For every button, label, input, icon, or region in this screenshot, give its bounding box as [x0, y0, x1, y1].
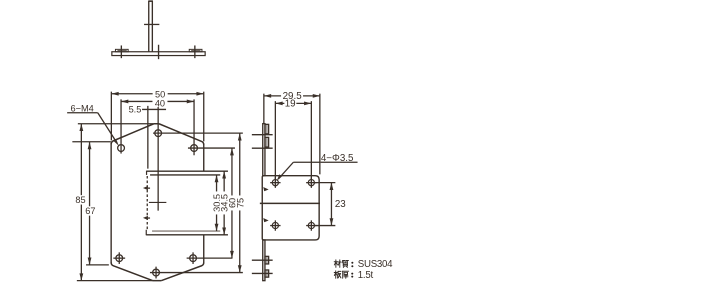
kanji 材 [334, 260, 341, 267]
kanji 板 [334, 271, 341, 278]
top view: right burring collar [189, 49, 202, 51]
front plate: bottom-right slant edge [161, 263, 204, 281]
front plate: left edge [110, 143, 112, 263]
side: plate mid line across web [260, 202, 320, 204]
ext: 40 dim left / top-left hole centerline [120, 99, 122, 153]
svg-text:75: 75 [235, 198, 245, 208]
dim 67 line [89, 142, 91, 265]
ext: top-center hole row (75 dim) [153, 132, 243, 134]
cutout: top-left end cap [146, 171, 148, 175]
leader 4-phi3.5 [293, 161, 320, 163]
hole M4 bottom-left [116, 255, 123, 262]
svg-text:19: 19 [285, 99, 296, 110]
hole M4 top-left [118, 145, 125, 152]
ext: web face line (5.5 dim left) [147, 106, 149, 169]
center mark cross in cutout [149, 201, 166, 203]
hole 3.5 top-left [272, 180, 278, 186]
leader 6-M4 [98, 113, 117, 143]
side: hole center tick 2 [252, 147, 273, 149]
top view: web plate edge-on [148, 1, 150, 52]
side: web plate face-on rectangle [262, 176, 319, 240]
dim 29.5 line [264, 95, 320, 97]
top view: web hole center tick [144, 23, 159, 25]
hole M4 bottom-center [153, 269, 160, 276]
cutout: bottom outer edge + 34.5 extension [146, 234, 228, 236]
ext: 67 dim bottom [86, 264, 109, 266]
side: base plate edge-on strip upper part [263, 124, 265, 176]
front plate: bottom flat + 85 extension [77, 280, 153, 282]
ext: bottom hole row (60 dim) [187, 257, 233, 259]
top view: left burring collar [115, 49, 128, 51]
cutout: top inner edge + 30.5 extension [150, 174, 220, 176]
front plate: top-left slant edge [111, 124, 154, 145]
ext: 40 dim right / top-right hole centerline [193, 99, 195, 155]
hole M4 top-center [155, 130, 162, 137]
ext: 50 dim right [203, 92, 205, 142]
dim 23 line [330, 183, 332, 226]
svg-text:40: 40 [155, 98, 165, 108]
side: weld mark lower [263, 218, 268, 222]
dim 85 text [74, 195, 87, 204]
dim 85 line [80, 124, 82, 281]
hidden web edge: dashed line [146, 176, 148, 230]
top view: base plate edge-on [112, 52, 205, 56]
cutout: top outer edge + 34.5 extension [147, 170, 228, 172]
svg-text:85: 85 [75, 195, 85, 205]
front plate: top-right slant edge [159, 124, 204, 145]
weld mark lower (front) [143, 216, 148, 220]
top view: left hole center line [120, 45, 122, 58]
dim 50 text [153, 91, 168, 99]
dim 67 text [84, 206, 97, 215]
front plate: bottom-left slant edge [111, 262, 153, 280]
ext: 19 left [274, 101, 276, 179]
front plate: right edge lower segment [203, 235, 205, 263]
svg-text:5.5: 5.5 [129, 104, 142, 114]
dim 34.5 line [223, 171, 225, 235]
svg-text:23: 23 [335, 199, 346, 210]
dim 50 line [111, 93, 203, 95]
dim 40 line [121, 100, 194, 102]
ext: 29.5 left [263, 94, 265, 124]
hole 3.5 top-right [308, 180, 314, 186]
side: hole center tick 4 [252, 272, 273, 274]
ext: 23 bottom [315, 225, 336, 227]
kanji 質 [342, 261, 348, 268]
ext: 29.5 right [319, 94, 321, 175]
cutout: bottom-left end cap [145, 230, 147, 236]
top view: right hole center line [194, 45, 196, 58]
ext: 67 dim top [72, 141, 111, 143]
ext: top hole row (60 dim) [188, 147, 235, 149]
hole M4 top-right [191, 145, 198, 152]
hole M4 bottom-right [190, 255, 197, 262]
side: collar tab 2 [265, 137, 269, 147]
front plate: right edge upper segment [203, 144, 205, 171]
dim 5.5 line [142, 108, 166, 110]
ext: 19 right [310, 101, 312, 179]
ext: bottom-center hole row (75 dim) [150, 272, 243, 274]
ext: 23 top [315, 182, 336, 184]
svg-text:1.5t: 1.5t [358, 270, 374, 281]
side: hole center tick 1 [252, 134, 273, 136]
kanji 厚 [342, 271, 348, 278]
side: collar tab 1 [265, 124, 269, 134]
ext: part center line (5.5 dim right) [157, 106, 159, 211]
full-width colons [351, 262, 353, 278]
dim 40 text [152, 99, 167, 107]
dim 60 line [231, 148, 233, 258]
hole 3.5 bottom-left [272, 222, 278, 228]
dim 19 line [275, 102, 311, 104]
weld mark upper (front) [143, 186, 148, 190]
ext: 50 dim left [110, 92, 112, 141]
dim 75 line [239, 133, 241, 272]
top view: center hole center line [158, 45, 160, 59]
side: collar tab 4 [265, 270, 269, 277]
side: hole center tick 3 [252, 259, 273, 261]
note: material kanji 材質 [334, 260, 348, 278]
svg-text:SUS304: SUS304 [358, 259, 393, 270]
side: weld mark upper [263, 187, 268, 191]
hole 3.5 bottom-right [308, 222, 314, 228]
dim 30.5 line [216, 175, 218, 231]
front plate: top apex line + 85 extension [78, 123, 154, 125]
side: base plate edge-on strip lower part [263, 240, 265, 281]
svg-text:67: 67 [85, 206, 95, 216]
side: collar tab 3 [265, 256, 269, 264]
cutout: bottom inner edge + 30.5 extension [152, 230, 220, 232]
